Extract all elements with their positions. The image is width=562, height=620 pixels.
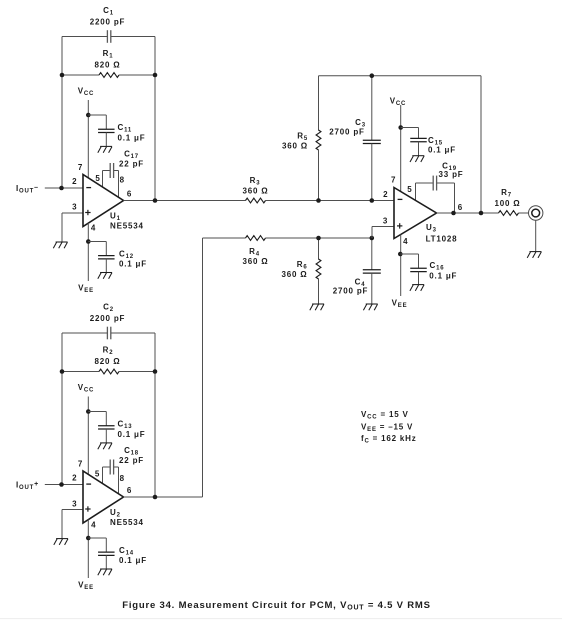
op-amp U3 LT1028: [394, 188, 437, 239]
capacitor C3 2700 pF (feedback): [329, 76, 381, 201]
capacitor C17 22 pF (comp, U1): [103, 150, 144, 179]
svg-text:IOUT+: IOUT+: [16, 481, 39, 492]
resistor R6 360 ohm (to ground): [282, 238, 321, 304]
node IOUT+/feedback junction: [59, 482, 64, 487]
node U1 output/feedback junction: [153, 198, 158, 203]
svg-text:C11: C11: [118, 123, 133, 134]
wire U1 output: [124, 200, 246, 202]
svg-text:LT1028: LT1028: [426, 235, 458, 244]
resistor R5 360 ohm (feedback): [282, 76, 321, 201]
wire pin 4 U1 to VEE: [87, 223, 89, 281]
svg-text:4: 4: [403, 237, 408, 246]
figure caption: [122, 600, 431, 612]
svg-text:8: 8: [120, 176, 125, 185]
node R1 right junction: [153, 73, 158, 78]
svg-text:0.1 μF: 0.1 μF: [118, 430, 146, 439]
resistor R7 100 ohm: [495, 188, 529, 215]
ground below C14: [98, 569, 112, 575]
svg-text:C16: C16: [430, 261, 445, 272]
svg-text:3: 3: [72, 203, 77, 212]
svg-text:2: 2: [72, 474, 77, 483]
svg-text:360 Ω: 360 Ω: [243, 186, 269, 195]
resistor R4 360 ohm: [203, 236, 373, 266]
wire pin 3 U2: [62, 510, 83, 539]
U3 designator labels: [426, 223, 458, 244]
resistor R1 820 ohm: [62, 49, 155, 77]
node U2 output/feedback junction: [153, 495, 158, 500]
note supply values: [361, 410, 417, 444]
svg-text:360 Ω: 360 Ω: [282, 270, 308, 279]
svg-text:360 Ω: 360 Ω: [243, 257, 269, 266]
node R2 right junction: [153, 369, 158, 374]
svg-text:R7: R7: [501, 188, 512, 199]
wire VCC to pin 7 U1: [87, 100, 89, 178]
capacitor C15 0.1 uF: [401, 128, 456, 156]
capacitor C2 2200 pF (feedback, U2): [90, 303, 125, 340]
node VCC/C11 junction: [86, 113, 91, 118]
capacitor C1 2200 pF (feedback, U1): [90, 6, 125, 43]
svg-text:3: 3: [72, 500, 77, 509]
node VCC/C15 junction: [398, 125, 403, 130]
svg-text:IOUT–: IOUT–: [16, 184, 39, 195]
capacitor C4 2700 pF (to ground): [333, 238, 381, 304]
svg-text:C17: C17: [124, 150, 139, 161]
svg-text:6: 6: [458, 203, 463, 212]
node R6 top junction: [316, 236, 321, 241]
wire pin 4 U2 to VEE: [87, 520, 89, 578]
op-amp U1 NE5534: [83, 175, 124, 227]
svg-text:2200 pF: 2200 pF: [90, 314, 125, 323]
svg-text:C1: C1: [103, 6, 114, 17]
svg-text:6: 6: [127, 486, 132, 495]
svg-text:C13: C13: [118, 420, 133, 431]
capacitor C12 0.1 uF: [88, 242, 147, 273]
capacitor C19 33 pF (comp, U3): [416, 162, 464, 214]
node C19/output junction: [451, 211, 456, 216]
svg-text:22 pF: 22 pF: [119, 456, 144, 465]
svg-text:2700 pF: 2700 pF: [329, 128, 364, 137]
node IOUT-/feedback junction: [59, 186, 64, 191]
svg-text:2200 pF: 2200 pF: [90, 18, 125, 27]
input IOUT- label: [16, 184, 39, 195]
svg-text:2: 2: [383, 190, 388, 199]
wire C1 top rail: [62, 36, 155, 38]
svg-text:VCC: VCC: [390, 96, 406, 107]
svg-text:7: 7: [391, 176, 396, 185]
wire left feedback vertical U1: [61, 37, 63, 189]
svg-text:33 pF: 33 pF: [439, 170, 464, 179]
node pin4/C14 junction: [86, 536, 91, 541]
wire IOUT+ to pin 2 U2: [45, 484, 83, 486]
svg-text:2: 2: [72, 177, 77, 186]
svg-text:VEE: VEE: [78, 581, 94, 592]
ground below R6: [310, 304, 324, 310]
svg-text:VCC = 15 V: VCC = 15 V: [361, 410, 409, 421]
svg-text:0.1 μF: 0.1 μF: [118, 134, 146, 143]
ground below connector: [527, 252, 541, 258]
svg-text:VEE: VEE: [392, 299, 408, 310]
ground below C16: [410, 285, 424, 291]
pin 8 stub U1: [119, 171, 125, 198]
svg-text:0.1 μF: 0.1 μF: [119, 556, 147, 565]
svg-text:R2: R2: [103, 346, 114, 357]
capacitor C14 0.1 uF: [88, 538, 147, 569]
svg-text:100 Ω: 100 Ω: [495, 199, 521, 208]
svg-text:360 Ω: 360 Ω: [282, 141, 308, 150]
wire U2 output: [124, 238, 203, 497]
wire pin 3 U3 jog: [372, 227, 394, 239]
svg-text:22 pF: 22 pF: [119, 160, 144, 169]
svg-text:C18: C18: [124, 446, 139, 457]
svg-text:R1: R1: [103, 49, 114, 60]
svg-text:4: 4: [91, 223, 96, 232]
pin 8 stub U2: [119, 467, 125, 494]
node R1 left junction: [60, 73, 65, 78]
svg-text:VEE = –15 V: VEE = –15 V: [361, 422, 413, 433]
node R2 left junction: [60, 369, 65, 374]
svg-text:U3: U3: [426, 223, 437, 234]
svg-text:0.1 μF: 0.1 μF: [428, 145, 456, 154]
U1 designator labels: [110, 212, 144, 231]
pin 5 stub U2: [95, 467, 103, 484]
resistor R2 820 ohm: [62, 346, 155, 374]
wire C2 top rail: [62, 332, 155, 334]
wire pin 3 U1: [62, 213, 83, 242]
svg-text:2700 pF: 2700 pF: [333, 286, 368, 295]
wire IOUT- to pin 2 U1: [45, 187, 83, 189]
svg-text:3: 3: [383, 216, 388, 225]
U2 designator labels: [110, 508, 144, 527]
svg-text:VCC: VCC: [78, 87, 94, 98]
svg-text:C2: C2: [103, 303, 114, 314]
svg-text:8: 8: [120, 474, 125, 483]
svg-text:5: 5: [95, 470, 100, 479]
wire left feedback vertical U2: [61, 333, 63, 485]
ground below C13: [98, 443, 112, 449]
node C3 bottom junction: [370, 198, 375, 203]
node C3 top junction: [370, 73, 375, 78]
capacitor C11 0.1 uF: [88, 115, 145, 146]
wire U3 output: [437, 212, 499, 214]
ground at pin 3 U2: [54, 539, 68, 545]
wire right feedback vertical U1: [154, 37, 156, 201]
output connector jack: [529, 206, 543, 220]
node C4 top junction: [370, 236, 375, 241]
resistor R3 360 ohm: [243, 176, 394, 203]
svg-text:Figure 34. Measurement Circuit: Figure 34. Measurement Circuit for PCM, …: [122, 600, 431, 612]
node R5 bottom junction: [316, 198, 321, 203]
svg-text:0.1 μF: 0.1 μF: [429, 272, 457, 281]
wire pin 4 U3 to VEE: [400, 235, 402, 297]
svg-text:6: 6: [127, 189, 132, 198]
pin 5 stub U3: [407, 183, 415, 201]
wire feedback top rail U3: [319, 76, 482, 213]
svg-text:820 Ω: 820 Ω: [95, 61, 121, 70]
pin 5 stub U1: [95, 171, 102, 188]
node VCC/C13 junction: [86, 409, 91, 414]
svg-text:5: 5: [95, 174, 100, 183]
svg-text:VEE: VEE: [78, 284, 94, 295]
svg-text:NE5534: NE5534: [110, 221, 144, 230]
svg-text:820 Ω: 820 Ω: [95, 357, 121, 366]
page rule bottom: [0, 618, 562, 620]
wire VCC to pin 7 U3: [400, 105, 402, 192]
svg-text:fC = 162 kHz: fC = 162 kHz: [361, 434, 417, 445]
node pin4/C16 junction: [398, 252, 403, 257]
svg-text:7: 7: [78, 460, 83, 469]
ground at pin 3 U1: [53, 242, 67, 248]
ground below C11: [98, 146, 112, 152]
svg-text:R3: R3: [250, 176, 261, 187]
svg-text:VCC: VCC: [78, 383, 94, 394]
ground below C4: [363, 304, 377, 310]
svg-text:R6: R6: [297, 260, 308, 271]
svg-text:7: 7: [78, 163, 83, 172]
wire right feedback vertical U2: [154, 333, 156, 497]
ground below C15: [410, 156, 424, 162]
capacitor C18 22 pF (comp, U2): [103, 446, 144, 475]
wire VCC to pin 7 U2: [87, 397, 89, 475]
power VCC U1: [78, 87, 94, 98]
svg-text:5: 5: [407, 185, 412, 194]
node pin4/C12 junction: [86, 239, 91, 244]
svg-text:4: 4: [91, 521, 96, 530]
ground below C12: [98, 273, 112, 279]
svg-text:NE5534: NE5534: [110, 518, 144, 527]
wire connector to ground: [535, 220, 537, 251]
svg-text:0.1 μF: 0.1 μF: [119, 259, 147, 268]
capacitor C13 0.1 uF: [88, 412, 145, 443]
node feedback/output junction: [479, 211, 484, 216]
op-amp U2 NE5534: [83, 471, 124, 523]
capacitor C16 0.1 uF: [400, 254, 457, 285]
